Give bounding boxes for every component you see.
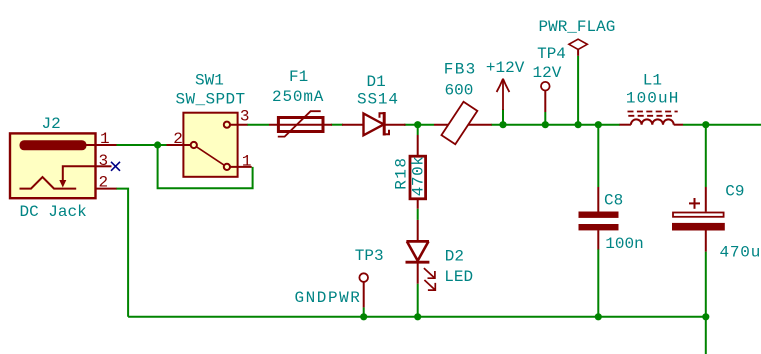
svg-text:GNDPWR: GNDPWR — [295, 289, 362, 307]
node junction L1/C9 — [702, 121, 709, 128]
svg-text:250mA: 250mA — [272, 88, 324, 106]
wire C9 bottom drop — [705, 252, 707, 317]
test point TP4 — [541, 82, 550, 112]
SW1 pin 1 — [230, 166, 252, 168]
SW1 pin 2 — [167, 144, 191, 146]
svg-text:SW1: SW1 — [195, 72, 224, 90]
wire SW pin3 to fuse — [247, 124, 269, 126]
svg-text:DC Jack: DC Jack — [20, 203, 87, 221]
wire R18 top — [417, 128, 419, 135]
svg-text:SW_SPDT: SW_SPDT — [176, 91, 246, 109]
power flag PWR_FLAG — [569, 39, 587, 56]
node junction TP4 — [542, 121, 549, 128]
svg-text:+12V: +12V — [486, 59, 525, 77]
LED D2 — [406, 220, 436, 290]
ferrite bead FB3 — [434, 102, 492, 145]
node junction TP3 — [360, 313, 367, 320]
resistor R18 — [410, 135, 426, 209]
wire PWR_FLAG drop — [577, 56, 579, 125]
inductor L1 — [620, 112, 684, 125]
capacitor C9 — [672, 187, 725, 252]
svg-text:2: 2 — [99, 174, 109, 192]
wire bottom rail — [128, 316, 706, 318]
wire J2 pin2 to bottom rail — [116, 189, 128, 317]
svg-text:470k: 470k — [410, 155, 428, 196]
wire SW loop down-right-up — [158, 145, 253, 188]
wire C8 top drop — [597, 125, 599, 187]
svg-text:2: 2 — [173, 130, 183, 148]
svg-text:1: 1 — [242, 153, 252, 171]
wire TP4 drop — [544, 112, 546, 125]
svg-text:1: 1 — [100, 130, 110, 148]
svg-text:600: 600 — [445, 82, 474, 100]
test point TP3 — [359, 273, 368, 307]
svg-text:F1: F1 — [289, 68, 308, 86]
svg-text:L1: L1 — [643, 72, 662, 90]
wire FB3 to L1 — [491, 124, 620, 126]
no-connect X on J2 pin 3 — [111, 162, 120, 171]
power symbol +12V — [497, 79, 510, 110]
wire C9 top drop — [705, 125, 707, 187]
svg-text:D1: D1 — [367, 73, 386, 91]
svg-text:J2: J2 — [42, 115, 61, 133]
node junction +12V — [499, 121, 506, 128]
connector J2 — [10, 133, 96, 198]
wire fuse to D1 — [331, 124, 343, 126]
capacitor C8 — [579, 187, 619, 249]
node junction D1/R18 — [414, 121, 421, 128]
node junction C8 bottom — [595, 313, 602, 320]
node junction PWR_FLAG — [575, 121, 582, 128]
wire GND vertical below C9 junction — [705, 317, 707, 354]
svg-text:C9: C9 — [725, 183, 744, 201]
node junction D2 — [414, 313, 421, 320]
node junction J2/SW — [154, 141, 161, 148]
J2 pin 1 — [85, 144, 117, 146]
switch SW1 — [183, 113, 237, 177]
wire TP3 to rail — [363, 307, 365, 316]
wire R18 gap — [417, 209, 419, 220]
svg-text:100n: 100n — [605, 235, 643, 253]
svg-text:D2: D2 — [445, 248, 464, 266]
svg-text:3: 3 — [240, 108, 250, 126]
svg-text:100uH: 100uH — [626, 89, 680, 107]
J2 pin 3 — [96, 165, 112, 167]
wire J2 pin1 to SW pin2 — [116, 144, 167, 146]
svg-text:TP4: TP4 — [537, 45, 566, 63]
svg-text:TP3: TP3 — [355, 247, 384, 265]
svg-text:470u: 470u — [720, 243, 761, 261]
diode D1 — [342, 112, 406, 136]
svg-text:3: 3 — [99, 152, 109, 170]
wire L1 to right edge — [683, 124, 761, 126]
node junction C9 bottom — [702, 313, 709, 320]
svg-text:R18: R18 — [392, 156, 410, 189]
svg-text:LED: LED — [444, 268, 473, 286]
fuse F1 — [269, 111, 332, 136]
node junction C8 top — [595, 121, 602, 128]
svg-text:SS14: SS14 — [357, 91, 399, 109]
J2 pin 2 — [96, 188, 117, 190]
wire +12V drop — [502, 109, 504, 125]
svg-text:FB3: FB3 — [444, 61, 477, 79]
svg-text:12V: 12V — [533, 64, 562, 82]
SW1 pin 3 — [230, 124, 248, 126]
svg-text:C8: C8 — [604, 191, 623, 209]
wire D1 to FB3 — [404, 124, 434, 126]
wire — [116, 56, 761, 354]
wire D2 to rail — [417, 284, 419, 317]
svg-text:PWR_FLAG: PWR_FLAG — [539, 18, 616, 36]
wire C8 bottom drop — [597, 249, 599, 317]
